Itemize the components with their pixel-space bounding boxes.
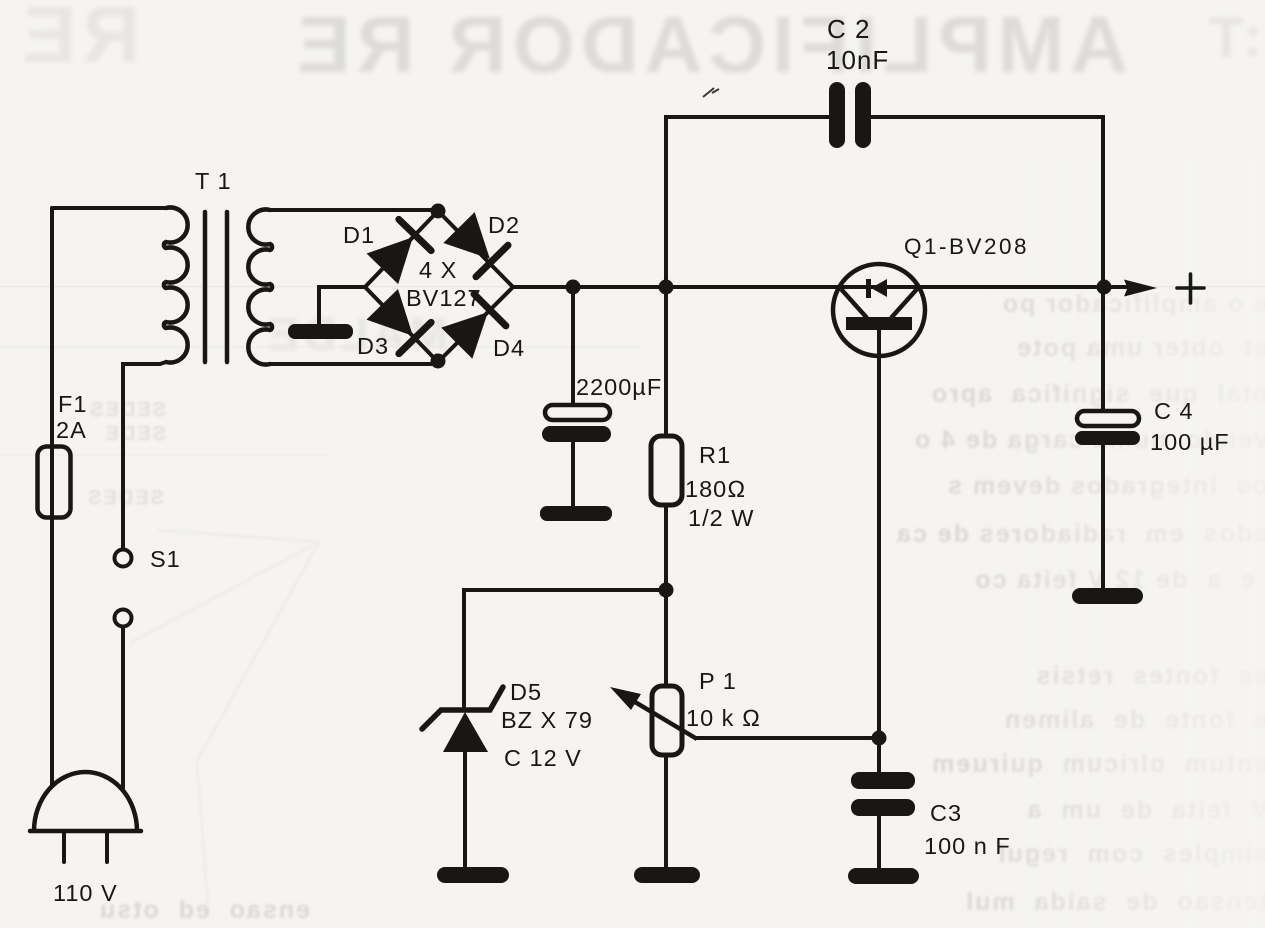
wire left mains vertical (plug to primary top) [50, 208, 54, 786]
svg-text:1/2 W: 1/2 W [688, 505, 754, 531]
wire DC rail [513, 285, 1128, 289]
GHOST LAYER (page bleed-through) [17, 0, 1262, 360]
capacitor C4 top plate [1077, 411, 1139, 426]
transistor Q1 collector diode arrow [871, 279, 887, 297]
output plus symbol [1177, 274, 1204, 303]
svg-text:4 X: 4 X [419, 257, 457, 283]
diode D2 [440, 209, 512, 281]
svg-text:2A: 2A [56, 417, 87, 443]
output arrowhead [1124, 280, 1157, 297]
wire secondary bottom to bridge [270, 362, 438, 364]
wire bridge negative node to ground [319, 287, 365, 326]
transistor Q1 base bar [846, 317, 912, 330]
transistor Q1 collector diode bar [866, 279, 871, 298]
ground under C4 [1072, 588, 1143, 604]
wire primary top [52, 206, 166, 210]
svg-text:C3: C3 [930, 800, 962, 826]
svg-text:100 n F: 100 n F [924, 833, 1011, 859]
resistor R1 body [651, 436, 682, 505]
svg-text:RE: RE [17, 0, 140, 79]
diode D3 [364, 286, 436, 358]
node rail R1 [659, 280, 674, 295]
svg-text:C 4: C 4 [1154, 398, 1194, 424]
svg-text:110 V: 110 V [53, 880, 118, 906]
ground secondary bar [288, 324, 353, 339]
ghost triangle bleed [130, 530, 319, 906]
svg-text:S1: S1 [150, 546, 181, 572]
plug prong left [62, 833, 66, 862]
wire secondary top to bridge [270, 208, 438, 212]
switch S1 contact bottom [115, 610, 132, 627]
svg-text:AMPLIFICADOR RE: AMPLIFICADOR RE [291, 0, 1128, 89]
wire P1 bottom to ground [664, 755, 668, 867]
transformer T1 secondary winding [248, 210, 272, 365]
svg-text:T 1: T 1 [195, 168, 232, 194]
svg-text:SEDE: SEDE [104, 423, 166, 445]
node emitter wiper [872, 731, 887, 746]
capacitor C3 plates [851, 772, 915, 789]
svg-text:C 2: C 2 [827, 14, 870, 44]
wire rail to R1 [664, 287, 668, 436]
potentiometer P1 arrow [630, 699, 697, 739]
capacitor C2 plates [829, 82, 845, 148]
fuse F1 body [38, 447, 71, 518]
svg-text:D4: D4 [493, 335, 525, 361]
wire zener branch [464, 590, 666, 706]
svg-text:SEDES: SEDES [88, 399, 166, 421]
wire switch to plug [121, 627, 125, 788]
pen mark [703, 88, 719, 97]
plug prong right [105, 833, 109, 862]
svg-text:ensao ed otsu: ensao ed otsu [98, 896, 310, 924]
node rail 2200uF [566, 280, 581, 295]
node rail C4 [1097, 280, 1112, 295]
zener D5 cathode bar with hooks [422, 687, 503, 729]
wire D5 to ground [463, 752, 467, 867]
ground under D5 [437, 867, 509, 883]
svg-text:R1: R1 [699, 442, 731, 468]
svg-text:2200µF: 2200µF [576, 374, 662, 400]
wire P1 wiper to emitter [697, 736, 879, 740]
wire R1 to P1 [664, 505, 668, 686]
svg-text:F1: F1 [58, 391, 87, 417]
transistor Q1 circle [833, 264, 925, 356]
bridge rectifier diamond wires [365, 211, 513, 362]
transformer T1 core [205, 212, 227, 362]
svg-text:D3: D3 [357, 333, 389, 359]
svg-text:100 µF: 100 µF [1150, 429, 1230, 455]
svg-text:C 12 V: C 12 V [504, 745, 582, 771]
diode D4 [438, 289, 510, 361]
ground under 2200uF [540, 506, 612, 521]
svg-text:D1: D1 [343, 222, 375, 248]
ground under P1 [634, 867, 700, 883]
node bridge bottom [431, 354, 446, 369]
potentiometer P1 body [652, 686, 682, 755]
svg-text:SEDES: SEDES [86, 487, 164, 509]
svg-text:10 k Ω: 10 k Ω [686, 705, 761, 731]
transistor Q1 junction V lines [841, 289, 917, 318]
svg-text::T: :T [1209, 5, 1262, 68]
svg-text:BZ X 79: BZ X 79 [501, 707, 593, 733]
switch S1 contact top [115, 550, 132, 567]
svg-text:P 1: P 1 [699, 668, 737, 694]
wire Q1 emitter down [877, 330, 881, 868]
plug body 110V [30, 772, 141, 831]
ground under C3 [848, 868, 919, 884]
svg-text:BV127: BV127 [406, 285, 482, 311]
wire rail branch down to 2200uF [571, 287, 575, 405]
transformer T1 primary winding [164, 208, 188, 363]
wire C4 branch [1101, 287, 1105, 588]
svg-text:D2: D2 [488, 212, 520, 238]
svg-text:10nF: 10nF [826, 45, 889, 75]
svg-text:Q1-BV208: Q1-BV208 [904, 234, 1029, 259]
node bridge top [431, 204, 446, 219]
diode D1 [364, 214, 436, 286]
wire 2200uF to ground [571, 442, 575, 506]
capacitor 2200uF top plate [545, 405, 610, 420]
zener D5 triangle [443, 712, 488, 752]
wire primary bottom to switch [123, 362, 166, 549]
node R1 bottom [659, 583, 674, 598]
capacitor C4 bottom plate [1075, 431, 1140, 445]
svg-text:D5: D5 [510, 679, 542, 705]
wire C2 loop left and top [666, 117, 1103, 287]
capacitor 2200uF bottom plate [542, 426, 611, 442]
svg-text:180Ω: 180Ω [685, 476, 746, 502]
MAIN SCHEMATIC [30, 117, 1128, 868]
